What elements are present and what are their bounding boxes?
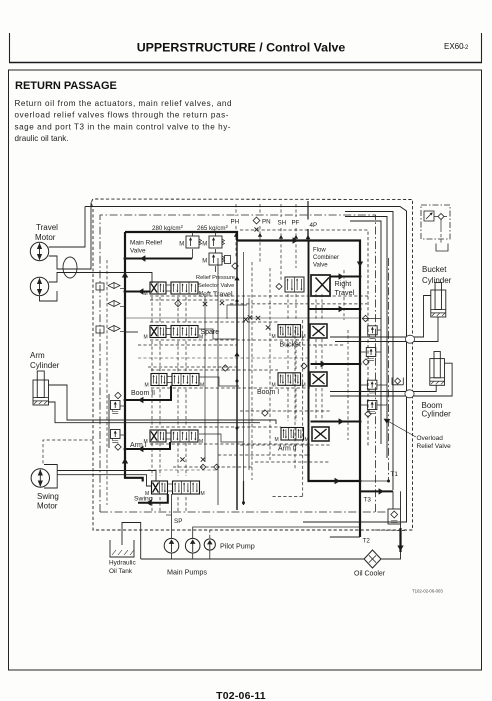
boom II spool	[145, 374, 205, 389]
wire relief to trunk	[125, 258, 192, 260]
svg-text:PF: PF	[292, 220, 300, 227]
svg-text:M: M	[144, 335, 148, 341]
wire swing out thick	[138, 494, 168, 503]
pilot pump	[204, 539, 215, 550]
bucket pilot box	[421, 205, 450, 239]
svg-text:draulic oil tank.: draulic oil tank.	[15, 134, 69, 143]
svg-text:M: M	[202, 242, 207, 248]
main return trunk thick vertical	[237, 241, 360, 538]
overload relief boom a	[366, 348, 376, 361]
wire right travel out	[330, 276, 360, 278]
svg-text:T102-02-06-003: T102-02-06-003	[412, 589, 443, 594]
relief valve 265	[202, 236, 224, 248]
swing SP stub	[171, 494, 173, 507]
svg-text:M: M	[201, 491, 205, 497]
flow combiner valve spool	[285, 277, 304, 292]
anti-cavitation check upper	[115, 392, 121, 398]
pilot boundary dash-dot box	[100, 215, 376, 512]
svg-text:Boom II: Boom II	[131, 390, 155, 397]
port SH pilot line	[280, 228, 282, 280]
hydraulic oil tank	[110, 540, 134, 557]
svg-text:SH: SH	[278, 220, 287, 227]
svg-text:Overload: Overload	[417, 435, 444, 442]
tank inlet pipe	[122, 523, 141, 560]
svg-text:Cylinder: Cylinder	[422, 276, 452, 285]
main relief valve envelope	[125, 232, 237, 241]
overload relief valve pointer	[385, 420, 416, 438]
junction diamond boom	[301, 363, 307, 369]
mid trunk vertical	[236, 241, 238, 511]
svg-text:Selector Valve: Selector Valve	[198, 283, 234, 289]
wire arm I out	[125, 442, 170, 449]
wire travel B	[49, 203, 92, 269]
inner solid envelope	[85, 207, 407, 523]
boom I spool	[272, 373, 306, 389]
arm II spool	[275, 428, 309, 444]
pilot dashed vertical b	[269, 268, 271, 460]
svg-text:Travel: Travel	[36, 223, 58, 232]
svg-text:Left Travel: Left Travel	[199, 290, 233, 299]
supply trunk right column	[308, 241, 310, 447]
return filter	[388, 509, 401, 524]
svg-text:sage and port T3 in the main c: sage and port T3 in the main control val…	[15, 122, 231, 131]
spare spool	[144, 326, 204, 341]
row rail left travel	[150, 295, 311, 297]
svg-text:Arm: Arm	[30, 351, 45, 360]
svg-text:Main Pumps: Main Pumps	[167, 568, 207, 577]
svg-text:Return oil from the actuators,: Return oil from the actuators, main reli…	[15, 99, 232, 108]
oil cooler	[364, 550, 381, 568]
wire travel A	[49, 207, 85, 248]
main pump 2	[185, 538, 200, 553]
pump2 delivery line	[193, 527, 360, 538]
row dashed rails 2	[150, 321, 278, 323]
svg-text:PH: PH	[231, 219, 240, 226]
svg-text:M: M	[305, 437, 309, 443]
pilot dashed vertical d	[294, 330, 296, 470]
jog ellipse bucket lines	[405, 335, 414, 343]
port PH pilot line	[235, 226, 237, 258]
svg-text:-2: -2	[463, 45, 469, 51]
port PN pilot line	[259, 226, 261, 262]
return collector line T3 side	[345, 212, 393, 491]
svg-text:Relief Valve: Relief Valve	[417, 443, 452, 450]
control valve outer dashed box	[92, 199, 413, 530]
wire right travel out 2	[310, 308, 361, 310]
wire arm head side	[49, 402, 261, 423]
svg-text:Boom I: Boom I	[257, 389, 279, 396]
svg-text:Relief Pressure: Relief Pressure	[196, 275, 235, 281]
port 4P supply drop	[307, 229, 309, 241]
svg-text:Main Relief: Main Relief	[130, 240, 162, 247]
wire bucket head side	[335, 317, 438, 342]
svg-text:T1: T1	[391, 471, 399, 478]
wire cooler to drop	[381, 552, 401, 559]
jog ellipse boom lines	[405, 390, 414, 398]
swing motor bracket	[44, 465, 57, 489]
thick drop to oil cooler	[399, 528, 401, 552]
pilot dashed vertical a	[251, 262, 253, 480]
relief valve 280	[179, 236, 201, 248]
right travel block	[311, 275, 330, 296]
header left tick	[9, 33, 11, 63]
check valve bowtie	[108, 301, 120, 307]
pump suction stubs	[171, 553, 173, 559]
wire boom II out	[125, 386, 171, 401]
left trunk thick vertical	[125, 232, 143, 482]
row diamonds	[222, 365, 228, 371]
svg-text:M: M	[272, 382, 276, 388]
svg-text:Hydraulic: Hydraulic	[109, 560, 136, 567]
dashed verticals right of spools	[343, 270, 345, 320]
svg-text:Combiner: Combiner	[313, 255, 339, 261]
filter bypass wire	[400, 491, 402, 533]
arrow on T line	[335, 478, 340, 484]
swivel joint ellipse	[63, 257, 77, 278]
svg-text:M: M	[179, 242, 184, 248]
wire T1 dash-dot	[388, 258, 390, 481]
relief pressure selector valve	[202, 253, 224, 265]
dashed return line right	[240, 230, 368, 446]
anti-cav bracket wire	[108, 394, 110, 448]
mid verticals	[204, 296, 206, 462]
arm II spool X section	[312, 427, 329, 441]
dashed rail boom II	[148, 366, 237, 368]
svg-text:M: M	[145, 383, 149, 389]
svg-text:Cylinder: Cylinder	[30, 361, 60, 370]
svg-text:M: M	[200, 383, 204, 389]
svg-text:Cylinder: Cylinder	[422, 410, 452, 419]
left travel spool	[144, 282, 204, 297]
svg-text:T3: T3	[364, 497, 372, 504]
pilot pump delivery dashed	[210, 530, 405, 538]
x marks rows	[244, 317, 248, 321]
header right tick	[481, 33, 483, 63]
wire swing B	[57, 475, 151, 486]
arm I spool	[144, 430, 204, 445]
svg-text:Motor: Motor	[35, 233, 56, 242]
svg-text:Flow: Flow	[313, 248, 326, 254]
wire spare feed	[125, 331, 138, 333]
svg-text:RETURN PASSAGE: RETURN PASSAGE	[15, 80, 117, 92]
wire boom I out	[311, 421, 361, 423]
port pilot upper segments	[235, 204, 237, 216]
wire left travel feed	[125, 291, 150, 293]
dash-dot drain line bottom	[100, 511, 388, 513]
main pump 1	[164, 538, 179, 553]
svg-text:Swing: Swing	[37, 492, 59, 501]
travel motor upper	[30, 242, 48, 260]
svg-text:Spare: Spare	[201, 329, 220, 336]
make-up check bracket	[392, 378, 403, 385]
pilot dashed vertical c	[302, 320, 304, 497]
dashed rail spare	[138, 344, 237, 346]
svg-text:Valve: Valve	[130, 248, 146, 255]
svg-text:PN: PN	[262, 219, 271, 226]
dashed pilot left column vertical	[106, 260, 108, 505]
dashed rails right column	[311, 295, 368, 297]
check valve between PH PN	[253, 217, 260, 224]
svg-text:Oil Tank: Oil Tank	[109, 568, 133, 575]
swing motor	[31, 469, 49, 487]
svg-text:M: M	[202, 259, 207, 265]
svg-text:280 kg/cm2: 280 kg/cm2	[152, 224, 184, 232]
svg-text:Arm I: Arm I	[130, 442, 147, 449]
boom I spool X section	[310, 372, 327, 386]
svg-text:M: M	[302, 334, 306, 340]
dashed rail arm I	[148, 419, 150, 421]
wire arm rod side	[49, 385, 277, 424]
bucket pilot tank	[436, 244, 448, 252]
svg-text:M: M	[275, 437, 279, 443]
svg-text:T02-06-11: T02-06-11	[216, 690, 266, 701]
return line nest 2	[345, 217, 387, 459]
mid trunk arrows	[234, 276, 239, 280]
overload relief boom b	[367, 380, 377, 393]
SP line	[171, 507, 173, 538]
bucket spool X section	[310, 324, 327, 338]
arm cylinder	[33, 371, 49, 405]
check below left travel	[175, 300, 181, 306]
left margin check row2	[108, 326, 120, 332]
wire dash-dot to valve	[99, 215, 101, 217]
relief stubs	[192, 249, 194, 259]
overload relief bucket	[368, 326, 378, 339]
wire T3 to filter	[392, 491, 394, 509]
svg-text:Arm II: Arm II	[278, 446, 297, 453]
trunk up arrow	[122, 272, 128, 277]
svg-text:Valve: Valve	[313, 263, 328, 269]
tank return bottom line	[141, 558, 364, 560]
boom cylinder	[430, 352, 445, 386]
thin continuation to T1	[360, 480, 389, 482]
row rail misc	[125, 317, 360, 319]
anti-cavitation check lower	[115, 444, 121, 450]
arrow on supply line	[293, 237, 298, 243]
dashed rail above swing	[173, 466, 252, 468]
arrow down on trunk	[357, 262, 363, 267]
wire boom rod side	[330, 363, 452, 396]
step wires between rows	[199, 329, 237, 339]
flow combiner pilot check	[276, 284, 282, 290]
trunk junction dots	[359, 275, 362, 278]
overload relief arm	[367, 401, 377, 414]
dashed rail left travel	[150, 299, 237, 301]
bucket cylinder	[431, 283, 446, 317]
svg-text:Right: Right	[335, 279, 352, 288]
inner vertical line	[217, 258, 219, 505]
left column port links	[151, 297, 153, 323]
wire swing A	[57, 471, 156, 482]
thick return from valve bottom to T	[309, 446, 361, 481]
svg-text:UPPERSTRUCTURE / Control Valve: UPPERSTRUCTURE / Control Valve	[137, 41, 346, 55]
T3 outlet line	[360, 490, 393, 492]
svg-text:overload relief valves flows t: overload relief valves flows through the…	[15, 111, 229, 120]
right column port links	[287, 294, 289, 321]
svg-text:EX60: EX60	[444, 42, 464, 51]
svg-text:Oil Cooler: Oil Cooler	[354, 571, 386, 578]
swing spool	[145, 481, 205, 497]
wire bucket rod side	[330, 296, 431, 338]
return line nest 3	[350, 221, 381, 444]
svg-text:T2: T2	[363, 538, 371, 545]
header rule	[9, 62, 482, 64]
wire bucket out	[311, 363, 361, 365]
travel motor lower	[30, 277, 48, 295]
svg-text:Motor: Motor	[37, 502, 58, 511]
bucket spool	[272, 325, 306, 341]
wire boom head side	[330, 385, 436, 391]
dashed drain to swing	[43, 440, 93, 464]
svg-text:M: M	[302, 382, 306, 388]
cluster stubs	[360, 319, 381, 406]
bucket pilot valve	[424, 211, 434, 221]
svg-text:Bucket: Bucket	[422, 265, 447, 274]
wire travel C	[49, 273, 152, 284]
wire travel D	[40, 291, 58, 301]
svg-text:Pilot Pump: Pilot Pump	[220, 542, 255, 551]
svg-text:SP: SP	[174, 518, 182, 525]
left margin check row1	[108, 283, 120, 289]
port PF pilot line	[295, 228, 297, 268]
T2 stub	[330, 536, 360, 538]
svg-text:M: M	[272, 334, 276, 340]
svg-text:4P: 4P	[310, 222, 318, 229]
inner vertical line 2	[243, 252, 245, 500]
svg-text:265 kg/cm2: 265 kg/cm2	[197, 224, 229, 232]
